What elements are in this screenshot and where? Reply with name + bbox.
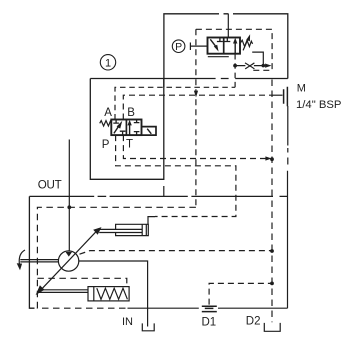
valve divider (223, 38, 225, 54)
svg-text:1/4" BSP: 1/4" BSP (296, 99, 341, 111)
orifice line (235, 65, 268, 67)
cylinder rod double line (99, 229, 142, 232)
pilot pressure line from cavity down to L2 (dashed vertical x=196) (195, 29, 197, 207)
solenoid actuator box (142, 127, 157, 136)
left solid box edge (29, 196, 34, 308)
bias spring zigzag (97, 288, 128, 299)
junction dot drain at envelope (270, 157, 274, 161)
solenoid diagonal (147, 129, 151, 134)
drain path T (dashed) to envelope (123, 135, 267, 158)
pump case drain dashed to envelope (80, 251, 273, 255)
D2 port bracket (264, 323, 280, 331)
right cell up arrow (234, 43, 236, 55)
right cell port down to pilot line A (234, 54, 236, 87)
pilot line A (dashed) (115, 87, 235, 119)
svg-text:M: M (297, 83, 306, 95)
dashed boundary L2 with envelope left edge and bottom (37, 207, 196, 308)
svg-text:IN: IN (122, 316, 133, 328)
svg-text:P: P (102, 139, 110, 151)
top port line (227, 14, 229, 38)
IN line (79, 261, 148, 327)
solenoid valve body (111, 120, 141, 136)
svg-text:D2: D2 (246, 315, 261, 327)
junction dot drain (270, 249, 274, 253)
spring adjust arrow (243, 39, 248, 51)
bias piston bars (93, 287, 95, 301)
compensator cylinder body (116, 224, 149, 235)
gauge port connection (272, 94, 282, 96)
left cell blocked port T (217, 38, 223, 42)
bias piston body (88, 287, 129, 301)
drain line D1 dashed (209, 283, 272, 304)
pump circle (58, 251, 78, 271)
D1 plug symbol (202, 306, 217, 311)
inner dashed cavity box (pilot valve) (196, 29, 272, 70)
svg-text:D1: D1 (202, 317, 217, 329)
main bottom line (128, 307, 288, 309)
drain arrowhead (265, 156, 271, 160)
right cell up arrow (129, 125, 131, 136)
solenoid valve enclosure box 1 (90, 79, 164, 180)
right riser (287, 106, 289, 308)
OUT line (68, 140, 70, 252)
spring chamber pilot path (252, 52, 263, 66)
right cell blocked port T (224, 38, 230, 42)
svg-text:A: A (104, 107, 112, 119)
svg-text:OUT: OUT (38, 179, 62, 192)
valve underline (208, 56, 229, 58)
envelope right edge dashed (271, 80, 273, 323)
solenoid valve divider (125, 120, 127, 136)
junction dot D1 line (270, 282, 274, 286)
stub below box to L1 (163, 186, 165, 196)
cylinder piston bars (142, 224, 146, 235)
left cell blocked T bottom (120, 131, 126, 135)
adjustable spring of pilot valve (240, 40, 253, 46)
pilot line B to gauge port M (dashed) (123, 95, 272, 119)
arrowhead on pilot line at B-line (194, 91, 198, 98)
IN port bracket (142, 323, 154, 330)
svg-text:1: 1 (105, 57, 111, 69)
valve return spring (100, 121, 112, 126)
shared horizontal boundary line (90, 78, 287, 80)
drive shaft double line (20, 260, 58, 262)
spring chamber pilot dashed (37, 278, 126, 286)
label circle 1 (100, 55, 115, 70)
arrow to envelope edge (265, 64, 271, 68)
gauge port M plug bars (284, 87, 288, 106)
left port with tick (190, 43, 207, 51)
label circle P (172, 40, 185, 53)
pump inlet triangle (65, 252, 72, 257)
bias piston rod double line (38, 290, 88, 293)
right cell blocked T top (134, 120, 140, 123)
pilot path P (dashed) to compensator cylinder (116, 135, 236, 216)
pressure reducing valve U-P body (208, 38, 241, 54)
left cell diagonal arrow (210, 39, 216, 46)
junction dot bottom port (233, 64, 237, 68)
svg-text:T: T (126, 139, 133, 151)
orifice symbol (245, 63, 254, 69)
junction dot under spring (262, 64, 266, 68)
right cell blocked T bottom (134, 132, 140, 136)
variable displacement diagonal arrow (43, 231, 97, 288)
svg-text:B: B (127, 107, 135, 119)
main line L1 (29, 195, 287, 197)
left cell blocked T top (113, 120, 119, 124)
svg-text:P: P (175, 41, 182, 53)
left cell diagonal arrow (114, 126, 119, 133)
rotation arc arrow (19, 250, 25, 264)
top pilot-valve enclosure box (164, 14, 288, 87)
cylinder riser solid corner (148, 217, 155, 225)
junction dot OUT on L2 (67, 205, 71, 209)
